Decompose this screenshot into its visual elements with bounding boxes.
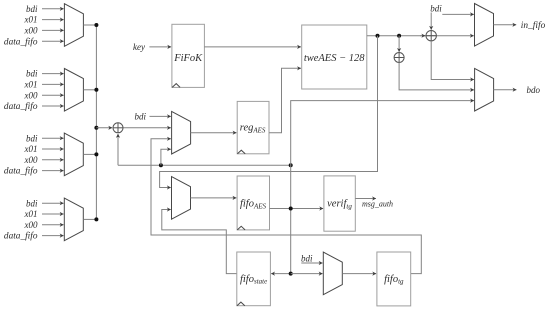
- node junction tweAES out 1: [376, 34, 380, 38]
- svg-text:x01: x01: [24, 209, 38, 219]
- wire mux M4 output to bus: [83, 218, 96, 220]
- svg-text:bdi: bdi: [26, 133, 38, 143]
- svg-text:fifostate: fifostate: [240, 274, 267, 286]
- wire mux M5 input4 from line A: [161, 149, 171, 165]
- node junction fifo_AES out: [289, 207, 293, 211]
- block reg_AES: [237, 101, 269, 153]
- clock triangle fifo_AES: [237, 226, 245, 230]
- wire vertical bus: [95, 25, 97, 219]
- wire mux M8 output to bdo: [494, 89, 517, 91]
- clock triangle fifo_state: [237, 302, 245, 306]
- wire mux M1 output to bus: [83, 24, 96, 26]
- mux M9 in_fifo: [475, 4, 494, 47]
- wire verif_tg output msg_auth: [355, 198, 376, 200]
- node junction bus mux4: [94, 217, 98, 221]
- mux M6: [172, 177, 191, 220]
- node junction bus mux2: [94, 88, 98, 92]
- wire x01 into mux M3: [42, 148, 64, 150]
- wire data_fifo into mux M4: [42, 235, 64, 237]
- svg-text:x01: x01: [24, 80, 38, 90]
- svg-text:data_fifo: data_fifo: [4, 231, 38, 242]
- wire junction into fifo_state input (leftward arrow): [271, 273, 291, 275]
- svg-text:veriftg: veriftg: [327, 199, 352, 211]
- wire x00 into mux M2: [42, 94, 64, 96]
- wire mux M7 output into fifo_tg: [342, 273, 376, 275]
- wire vertical x290 with branch to mux M8 input3: [291, 101, 474, 274]
- wire XOR X0 bottom input from line A: [117, 134, 119, 165]
- wire bdi drop into XOR X2: [430, 13, 432, 30]
- clock triangle reg_AES: [237, 150, 245, 154]
- mux M1: [64, 4, 83, 47]
- wire feedback tweAES output down-left to mux M6 input1: [160, 36, 378, 188]
- block verif_tg: [324, 176, 355, 231]
- wire bdi into mux M5: [150, 115, 171, 117]
- xor X0: [113, 123, 123, 133]
- svg-text:x00: x00: [24, 90, 38, 100]
- wire data_fifo into mux M2: [42, 105, 64, 107]
- svg-text:x01: x01: [24, 144, 38, 154]
- wire mux M5 output into reg_AES: [191, 132, 237, 134]
- mux M2: [64, 69, 83, 112]
- svg-text:x01: x01: [24, 15, 38, 25]
- wire bdi into mux M3: [42, 137, 64, 139]
- wire bdi into mux M9 input1: [442, 13, 474, 15]
- svg-text:data_fifo: data_fifo: [4, 36, 38, 47]
- svg-text:bdi: bdi: [134, 112, 146, 122]
- wire data_fifo into mux M3: [42, 170, 64, 172]
- wire fifo_tg feedback up-left to mux M5 input3: [151, 139, 421, 274]
- wire line A horizontal: [118, 164, 291, 166]
- block tweAES-128: [302, 25, 367, 89]
- mux M8 bdo: [475, 68, 494, 111]
- wire mux M6 output into fifo_AES: [191, 197, 237, 199]
- node junction bus mux3: [94, 152, 98, 156]
- wire key into FiFoK: [149, 46, 171, 48]
- node junction tweAES out 2: [397, 34, 401, 38]
- svg-text:bdo: bdo: [527, 85, 541, 95]
- svg-text:FiFoK: FiFoK: [173, 53, 203, 64]
- wire XOR X2 arrow on horizontal line: [420, 35, 425, 37]
- wire XOR X0 output to mux M5: [123, 127, 171, 129]
- wire FiFoK output into tweAES: [204, 46, 301, 48]
- xor X1: [394, 53, 404, 63]
- wire fifo_state output wrap to mux M6 input2: [162, 210, 237, 274]
- svg-text:tweAES − 128: tweAES − 128: [304, 53, 365, 64]
- wire x00 into mux M4: [42, 224, 64, 226]
- svg-text:regAES: regAES: [240, 123, 266, 135]
- wire mux M3 output to bus: [83, 153, 96, 155]
- svg-text:x00: x00: [24, 220, 38, 230]
- svg-text:bdi: bdi: [26, 198, 38, 208]
- block fifo_state: [237, 252, 271, 306]
- wire junction to mux M7 input2: [291, 273, 323, 275]
- node junction fifo_state: [289, 272, 293, 276]
- wire x00 into mux M1: [42, 29, 64, 31]
- node junction line A right end: [289, 163, 293, 167]
- wire x01 into mux M2: [42, 83, 64, 85]
- mux M4: [64, 198, 83, 241]
- svg-text:key: key: [133, 42, 145, 52]
- wire x01 into mux M4: [42, 213, 64, 215]
- svg-text:bdi: bdi: [26, 4, 38, 14]
- wire fifo_AES output into verif_tg: [270, 208, 324, 210]
- svg-text:bdi: bdi: [26, 69, 38, 79]
- wire into XOR X1 from junction: [398, 36, 400, 52]
- svg-text:msg_auth: msg_auth: [362, 199, 393, 208]
- svg-text:in_fifo: in_fifo: [521, 20, 546, 31]
- svg-text:fifoAES: fifoAES: [240, 199, 267, 211]
- node junction bus mux1: [94, 23, 98, 27]
- wire XOR X1 output down-right to mux M8 input2: [399, 63, 474, 90]
- block fifo_AES: [237, 176, 269, 230]
- wire x00 into mux M3: [42, 159, 64, 161]
- wire bdi into mux M2: [42, 73, 64, 75]
- block FiFoK: [172, 24, 205, 87]
- wire data_fifo into mux M1: [42, 40, 64, 42]
- svg-text:bdi: bdi: [430, 3, 442, 13]
- svg-text:fifotg: fifotg: [384, 274, 404, 286]
- wire bdi into mux M7 input1: [301, 262, 322, 264]
- svg-text:data_fifo: data_fifo: [4, 166, 38, 177]
- node junction bus xor tap: [94, 126, 98, 130]
- wire bdi into mux M4: [42, 202, 64, 204]
- clock triangle FiFoK: [172, 84, 180, 88]
- mux M5: [172, 111, 191, 154]
- wire reg_AES output feedback to tweAES input2: [269, 68, 301, 132]
- wire XOR X2 down to mux M8 input1: [431, 41, 474, 80]
- mux M3: [64, 133, 83, 176]
- xor X2: [426, 31, 436, 41]
- node junction line A mux5 tap: [159, 163, 163, 167]
- block fifo_tg: [377, 252, 411, 306]
- svg-text:x00: x00: [24, 155, 38, 165]
- svg-text:x00: x00: [24, 26, 38, 36]
- wire mux M2 output to bus: [83, 89, 96, 91]
- wire bus to XOR X0: [96, 127, 112, 129]
- wire bdi into mux M1: [42, 8, 64, 10]
- svg-text:data_fifo: data_fifo: [4, 101, 38, 112]
- wire tweAES output line to mux M9: [367, 35, 474, 37]
- svg-text:bdi: bdi: [301, 253, 313, 263]
- mux M7: [323, 252, 342, 295]
- wire mux M9 output to in_fifo: [494, 24, 517, 26]
- wire x01 into mux M1: [42, 19, 64, 21]
